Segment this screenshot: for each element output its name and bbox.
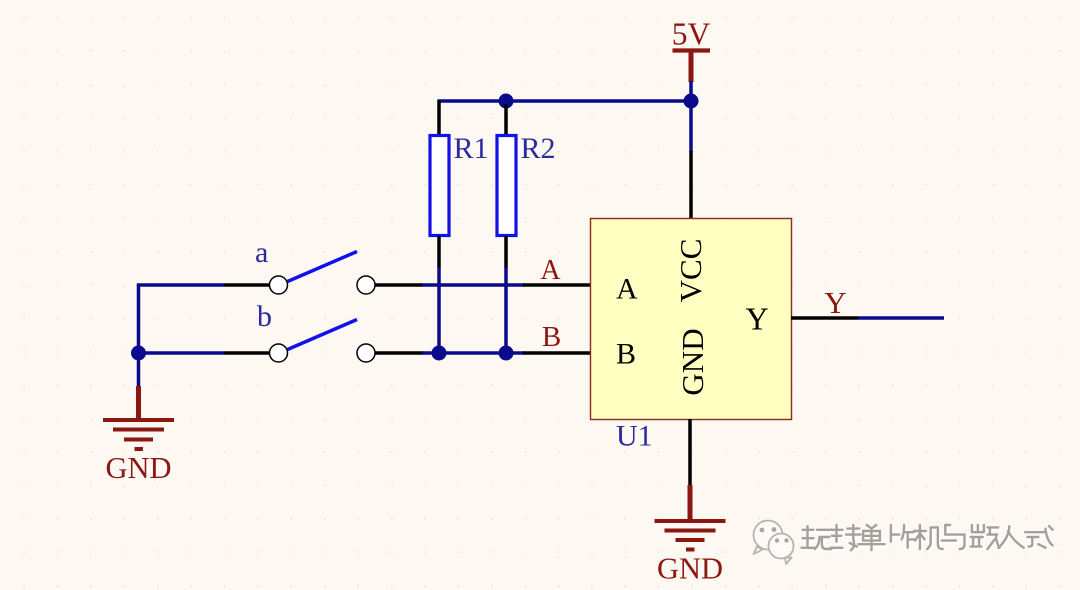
svg-text:a: a	[255, 236, 268, 269]
ground GND bottom	[655, 485, 726, 586]
wire row b left segment	[137, 351, 224, 355]
wire VCC column blue segment	[689, 81, 693, 152]
node junction R1 on net B	[432, 346, 447, 361]
ground GND left	[103, 386, 174, 485]
svg-text:A: A	[540, 255, 561, 286]
svg-text:GND: GND	[657, 552, 723, 586]
node junction R2 on net B	[499, 346, 514, 361]
svg-text:R1: R1	[454, 132, 489, 165]
svg-text:GND: GND	[105, 451, 171, 485]
svg-text:b: b	[257, 300, 272, 333]
svg-text:A: A	[616, 273, 638, 306]
svg-text:B: B	[542, 321, 561, 353]
svg-text:GND: GND	[675, 328, 710, 395]
svg-text:U1: U1	[616, 420, 653, 453]
switch b	[224, 320, 423, 363]
IC U1 body	[591, 219, 792, 420]
switch a	[224, 252, 423, 295]
svg-text:R2: R2	[521, 132, 556, 165]
pin Y (U1) black lead	[791, 316, 858, 320]
node junction at VCC column (691,101)	[684, 94, 699, 109]
wire row a left segment	[137, 283, 224, 287]
watermark logo (chat bubbles)	[754, 521, 794, 565]
wire left rail vertical	[137, 285, 141, 387]
node junction left rail at row b	[131, 346, 146, 361]
svg-text:5V: 5V	[672, 17, 711, 52]
watermark text (stylized CJK strokes, embossed)	[802, 525, 1055, 552]
svg-text:Y: Y	[745, 301, 768, 337]
wire R2 column vertical to net B	[504, 267, 508, 353]
svg-text:B: B	[616, 338, 636, 371]
wire net A horizontal	[422, 283, 524, 287]
pin B (U1) black lead	[523, 351, 591, 355]
resistor R2	[497, 104, 516, 268]
svg-text:VCC: VCC	[673, 239, 708, 303]
pin VCC (U1) black lead	[689, 151, 693, 219]
resistor R1	[430, 100, 449, 268]
wire net Y	[858, 316, 944, 320]
wire R1 column vertical to net B	[437, 267, 441, 353]
power port 5V	[672, 17, 711, 83]
svg-text:Y: Y	[824, 285, 846, 320]
wire net B horizontal	[422, 351, 524, 355]
wire top bus from R1 top to VCC column	[438, 99, 692, 103]
pin GND (U1) black lead	[688, 419, 692, 486]
pin A (U1) black lead	[523, 283, 591, 287]
node junction at R2 top (506,101)	[499, 94, 514, 109]
